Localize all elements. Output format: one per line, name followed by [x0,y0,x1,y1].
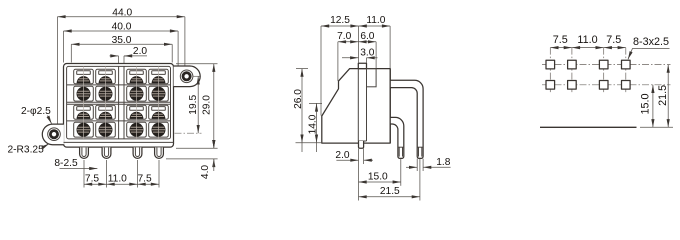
svg-text:21.5: 21.5 [657,85,669,106]
dim 44.0 line [57,16,184,18]
svg-text:26.0: 26.0 [293,89,304,109]
cell col 158.5 [149,69,169,84]
4.0 dim [176,147,218,149]
pad hole 7 (row2 col3) [599,81,608,90]
inner rect [67,66,171,138]
cell col 83.5 [74,69,94,84]
1.8 [406,166,417,168]
body outer [64,64,174,148]
2.0 [336,159,358,161]
svg-text:11.0: 11.0 [577,34,597,46]
svg-text:3.0: 3.0 [360,48,374,59]
svg-text:2.0: 2.0 [335,150,349,161]
ear2 ring [48,128,61,141]
clamp box [367,69,377,87]
svg-text:12.5: 12.5 [330,15,350,26]
squares: 8 pads [546,60,630,89]
ear1 ring [180,70,193,83]
svg-text:21.5: 21.5 [380,186,400,197]
svg-text:1.8: 1.8 [436,157,450,168]
svg-text:7.5: 7.5 [553,34,568,46]
svg-text:8-2.5: 8-2.5 [54,158,78,169]
right side dims: 19.5 and 29.0 [193,75,202,77]
dim 40.0 line [64,30,179,32]
pin2 [102,147,111,158]
pin3 [133,147,142,158]
top dim line [550,47,572,49]
ear top-right [174,66,201,87]
dim 35.0 line [71,43,172,45]
pin A (lower, right-angle) [390,117,404,158]
svg-text:19.5: 19.5 [188,95,199,115]
cell col 105.5 [96,69,116,84]
top dims 12.5 / 11.0 [321,25,359,27]
body profile [322,69,390,144]
svg-text:15.0: 15.0 [639,93,651,114]
bottom dims middle view [358,149,360,201]
svg-text:14.0: 14.0 [308,114,319,134]
svg-text:2-φ2.5: 2-φ2.5 [21,106,51,117]
ear bottom-left [42,124,64,145]
svg-text:35.0: 35.0 [112,35,132,46]
svg-text:29.0: 29.0 [202,95,213,115]
15.0 [359,181,401,183]
svg-text:15.0: 15.0 [368,171,388,182]
cell col 136.5 [127,69,147,84]
svg-text:7.5: 7.5 [85,174,99,185]
inner flange line [64,141,174,143]
pad hole 6 (row2 col2) [568,81,577,90]
svg-text:2-R3.25: 2-R3.25 [8,144,45,155]
svg-text:8-3x2.5: 8-3x2.5 [633,36,669,48]
pad hole 8 (row2 col4) [622,81,631,90]
svg-text:7.5: 7.5 [138,174,152,185]
svg-text:44.0: 44.0 [112,7,132,18]
terminal cells [74,66,169,138]
pin1 [80,147,89,158]
dim 3.0 outside arrows [342,57,358,59]
svg-text:7.5: 7.5 [606,34,621,46]
svg-text:40.0: 40.0 [112,22,132,33]
bottom dims left view [83,160,85,188]
row separators [67,84,171,86]
pad hole 4 (row1 col4) [622,60,631,69]
left dims 26.0 / 14.0 [296,68,308,70]
center lines [542,64,671,66]
svg-text:7.0: 7.0 [337,31,351,42]
svg-text:11.0: 11.0 [366,15,385,26]
divider center [118,66,120,138]
pad hole 1 (row1 col1) [546,60,555,69]
pad hole 2 (row1 col2) [568,60,577,69]
pad hole 5 (row2 col1) [546,81,555,90]
dims 7.0 / 6.0 [338,41,359,43]
top tab [358,63,366,68]
front tab 2.0 [359,141,364,148]
pin4 [155,147,164,158]
15.0 / 21.5 vertical dims [652,85,654,128]
body right edge restroke [389,69,391,143]
svg-text:6.0: 6.0 [360,31,374,42]
dim 2.0 (center gap), outside arrows [110,55,119,57]
pin B (upper, right-angle) [390,80,423,158]
svg-text:2.0: 2.0 [133,46,147,57]
pad hole 3 (row1 col3) [599,60,608,69]
board edge [540,126,637,128]
svg-text:11.0: 11.0 [108,174,127,185]
svg-text:4.0: 4.0 [200,165,211,179]
screw channel [357,69,359,141]
21.5 [359,196,420,198]
